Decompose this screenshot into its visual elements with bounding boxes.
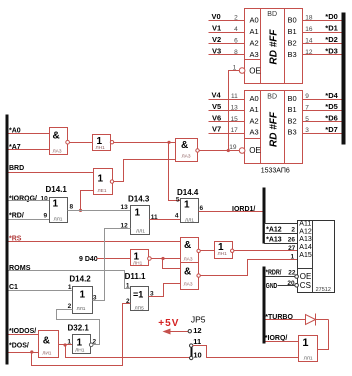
wire LA3#1 out to LN1#1	[70, 142, 93, 144]
wire D14.2 out to D14.3 pin12	[93, 229, 131, 301]
svg-text:19: 19	[229, 144, 237, 151]
wire V2	[209, 43, 245, 45]
svg-text:V7: V7	[212, 125, 221, 134]
wire B2 to *D6	[303, 121, 342, 123]
svg-text:A2: A2	[250, 116, 259, 125]
svg-text:A11: A11	[299, 220, 311, 227]
wire *DOS/ to D11.1 pin2	[32, 304, 131, 366]
svg-text:10: 10	[41, 195, 49, 202]
jumper shunt	[191, 348, 193, 357]
svg-text:1: 1	[77, 338, 83, 349]
svg-text:B2: B2	[288, 116, 297, 125]
svg-text:9: 9	[305, 93, 309, 100]
wire C1 to D14.2 pin1	[9, 290, 73, 292]
wire *IODOS/ to LI1	[9, 334, 39, 336]
svg-text:=1: =1	[133, 289, 143, 299]
svg-text:*D2: *D2	[325, 35, 338, 44]
svg-text:JP5: JP5	[191, 314, 206, 324]
svg-text:V1: V1	[212, 24, 221, 33]
svg-text:D32.1: D32.1	[68, 323, 90, 332]
pin 10	[190, 356, 193, 359]
wire B0 to *D0	[303, 20, 342, 22]
svg-text:6: 6	[200, 205, 204, 212]
power arrow	[167, 331, 189, 333]
svg-text:ЛА3: ЛА3	[182, 154, 191, 160]
wire B0 to *D4	[303, 99, 342, 101]
wire *RDR/ to OE	[266, 276, 295, 278]
svg-text:7: 7	[305, 105, 309, 112]
svg-text:5: 5	[176, 196, 180, 203]
svg-text:*DOS/: *DOS/	[9, 342, 29, 349]
svg-text:3: 3	[305, 127, 309, 134]
svg-text:26: 26	[288, 237, 296, 244]
svg-text:1: 1	[233, 64, 237, 71]
mid bus bar upper	[263, 188, 266, 244]
svg-text:*D3: *D3	[325, 47, 338, 56]
wire AND A out to LN1 buffer	[201, 250, 215, 252]
svg-text:15: 15	[231, 116, 239, 123]
wire AND B out to EPROM A15 pin1	[201, 260, 298, 276]
wire LI1 out to JP5 pin10	[66, 345, 190, 358]
svg-text:6: 6	[234, 38, 238, 45]
wire junction to AND B in1	[163, 259, 181, 269]
svg-text:A13: A13	[299, 236, 312, 243]
svg-text:*D0: *D0	[325, 12, 338, 21]
svg-text:9 D40: 9 D40	[79, 256, 98, 263]
wire JP5 pin11 to TURBO gate in2	[193, 346, 299, 358]
AND gate LA3 B	[181, 263, 201, 290]
svg-text:*D1: *D1	[325, 24, 338, 33]
junction	[161, 257, 164, 260]
svg-text:*IORQG/: *IORQG/	[9, 195, 37, 202]
svg-text:V0: V0	[212, 12, 221, 21]
svg-text:OE: OE	[249, 146, 261, 155]
wire LE1 in2 from D14.1 output net	[81, 191, 94, 211]
wire LN1#1 out to LA3#2 in1 and D14.4 pin5	[114, 142, 176, 144]
bus driver U1 RD#FF top 1533AP6	[239, 9, 302, 84]
svg-text:1: 1	[67, 339, 71, 346]
svg-text:B0: B0	[288, 15, 297, 24]
svg-text:&: &	[184, 240, 191, 251]
svg-text:B2: B2	[288, 38, 297, 47]
wire V4	[209, 99, 245, 101]
svg-text:RD #FF: RD #FF	[268, 111, 279, 147]
wire *IORQ/ to gate	[266, 341, 299, 343]
EPROM 27512	[295, 220, 335, 293]
svg-text:1: 1	[80, 289, 86, 300]
wire *A7 to DD1 AND	[9, 149, 50, 151]
svg-text:9: 9	[44, 213, 48, 220]
svg-text:*D4: *D4	[325, 91, 338, 100]
svg-text:11: 11	[231, 93, 238, 100]
OR gate LL1 turbo	[299, 336, 318, 362]
svg-text:D14.3: D14.3	[128, 195, 150, 204]
svg-text:ЛЛ1: ЛЛ1	[54, 217, 63, 223]
svg-text:A12: A12	[299, 228, 312, 235]
mid bus bar lower	[263, 267, 266, 344]
svg-text:*A12: *A12	[266, 226, 282, 233]
right data bus bar	[342, 13, 346, 145]
OR gate D14.4	[181, 199, 199, 224]
wire B2 to *D2	[303, 43, 342, 45]
svg-text:*RD/: *RD/	[9, 213, 24, 220]
junction	[227, 149, 230, 152]
svg-text:D14.4: D14.4	[177, 188, 199, 197]
wire V3	[209, 54, 245, 56]
pin 11	[190, 344, 193, 347]
wire LA3#2 out to OE pins	[200, 150, 240, 152]
svg-text:A0: A0	[250, 94, 259, 103]
AND gate LI1	[39, 331, 59, 358]
svg-text:GND: GND	[266, 283, 278, 290]
svg-text:V2: V2	[212, 35, 221, 44]
wire GND to CS	[278, 285, 295, 287]
bus driver U2 RD#FF bottom 1533AP6	[239, 91, 302, 164]
svg-text:A0: A0	[250, 15, 259, 24]
wire *RD/ to D14.1	[9, 219, 50, 221]
svg-text:16: 16	[305, 26, 313, 33]
diode VD	[306, 314, 316, 326]
svg-text:ЛЕ1: ЛЕ1	[98, 188, 107, 194]
svg-text:ЛИ1: ЛИ1	[42, 350, 52, 356]
svg-text:OE: OE	[300, 272, 312, 281]
junction	[79, 209, 82, 212]
AND gate LA3 A	[181, 238, 201, 263]
svg-text:B0: B0	[288, 94, 297, 103]
svg-text:&: &	[53, 131, 60, 142]
svg-text:14: 14	[305, 38, 313, 45]
svg-text:17: 17	[231, 127, 239, 134]
svg-text:27: 27	[288, 245, 296, 252]
wire D14.3 out to D14.4 pin4	[150, 219, 181, 221]
svg-text:ЛН1: ЛН1	[96, 145, 106, 151]
wire D32.1 out to D14.2 pin2	[57, 310, 100, 345]
wire V1	[209, 32, 245, 34]
svg-text:1: 1	[53, 198, 59, 209]
svg-text:V4: V4	[212, 91, 222, 100]
svg-text:ЛН1: ЛН1	[75, 348, 85, 354]
wire *DOS/ to LI1	[9, 352, 39, 354]
svg-text:*D5: *D5	[325, 102, 338, 111]
wire D11.1 out to AND B in2	[149, 284, 181, 297]
svg-text:27512: 27512	[316, 287, 331, 293]
svg-text:+5V: +5V	[158, 318, 179, 329]
svg-text:1: 1	[126, 282, 130, 289]
wire V5	[209, 110, 245, 112]
svg-text:D14.1: D14.1	[46, 185, 68, 194]
buffer LN1 D40	[131, 250, 152, 267]
svg-text:CS: CS	[300, 281, 311, 290]
svg-text:V5: V5	[212, 102, 221, 111]
wire V0	[209, 20, 245, 22]
svg-text:B1: B1	[288, 105, 297, 114]
junction	[64, 343, 67, 346]
svg-text:ЛА3: ЛА3	[53, 148, 62, 154]
buffer LN1 #2	[215, 242, 234, 259]
wire LN1 out to AND A in2	[152, 258, 181, 260]
svg-text:1: 1	[302, 337, 308, 349]
svg-text:*A13: *A13	[266, 236, 282, 243]
wire V7	[209, 133, 245, 135]
svg-text:8: 8	[70, 203, 74, 210]
svg-text:&: &	[184, 267, 191, 278]
svg-text:ЛЛ1: ЛЛ1	[77, 306, 86, 312]
wire *RS to AND A	[9, 241, 181, 243]
svg-text:OE: OE	[249, 66, 261, 75]
svg-text:B1: B1	[288, 27, 297, 36]
svg-text:A1: A1	[250, 105, 259, 114]
svg-text:12: 12	[305, 49, 313, 56]
junction	[167, 141, 170, 144]
wire LN1#2 out to EPROM A14 pin27	[234, 250, 298, 252]
svg-text:*D7: *D7	[325, 125, 338, 134]
wire D14.1 out to D14.3 pin13	[68, 210, 131, 212]
wire B1 to *D5	[303, 110, 342, 112]
NOR gate LE1	[94, 169, 114, 195]
svg-text:1: 1	[290, 254, 294, 261]
svg-text:1: 1	[68, 284, 72, 291]
wire LI1 out to D32.1	[59, 344, 73, 346]
svg-text:ЛА3: ЛА3	[184, 282, 193, 288]
svg-text:IORD1/: IORD1/	[232, 206, 255, 213]
AND gate LA3 #2	[176, 139, 200, 162]
OR gate D14.1	[50, 198, 68, 223]
svg-text:BRD: BRD	[9, 165, 24, 172]
wire B3 to *D7	[303, 133, 342, 135]
svg-text:ЛЛ1: ЛЛ1	[185, 217, 194, 223]
svg-text:2: 2	[68, 303, 72, 310]
svg-text:BD: BD	[267, 94, 277, 101]
svg-text:A15: A15	[299, 252, 312, 259]
wire BRD to LE1 in1	[9, 172, 94, 174]
svg-text:ЛН1: ЛН1	[218, 251, 228, 257]
svg-text:1: 1	[98, 174, 104, 185]
svg-text:BD: BD	[267, 11, 277, 18]
svg-text:RD #FF: RD #FF	[268, 29, 279, 65]
svg-text:ЛН1: ЛН1	[133, 260, 143, 266]
svg-text:13: 13	[121, 204, 129, 211]
junction	[30, 350, 33, 353]
svg-text:A1: A1	[250, 27, 259, 36]
svg-text:&: &	[43, 336, 50, 347]
wire gate out to diode cathode	[318, 320, 329, 350]
svg-text:*IODOS/: *IODOS/	[9, 328, 36, 335]
svg-text:1: 1	[135, 207, 141, 218]
svg-text:18: 18	[305, 15, 313, 22]
svg-text:4: 4	[234, 26, 238, 33]
bus tap *A13 pin26	[265, 234, 298, 244]
svg-text:ЛП5: ЛП5	[135, 305, 145, 311]
svg-text:A2: A2	[250, 38, 259, 47]
wire V6	[209, 121, 245, 123]
svg-text:A3: A3	[250, 50, 259, 59]
svg-text:B3: B3	[288, 128, 297, 137]
OR gate D14.2	[73, 287, 93, 314]
AND gate LA3 #1	[50, 128, 70, 155]
wire *A0 to DD1 AND	[9, 133, 50, 135]
svg-text:ЛЛ1: ЛЛ1	[136, 229, 145, 235]
OR gate D14.3	[131, 206, 150, 235]
svg-text:22: 22	[288, 270, 296, 277]
svg-text:13: 13	[231, 105, 239, 112]
pin 12	[188, 330, 191, 333]
wire *TURBO to diode	[266, 319, 329, 321]
inverter D32.1	[73, 335, 93, 354]
wire B3 to *D3	[303, 54, 342, 56]
wire LE1 out to LA3#2 in2	[114, 160, 176, 182]
svg-text:2: 2	[234, 15, 238, 22]
svg-text:C1: C1	[9, 284, 18, 291]
wire ROMS to D11.1 pin1	[9, 271, 131, 289]
left address bus bar	[6, 115, 9, 365]
svg-text:12: 12	[193, 326, 201, 335]
svg-text:A3: A3	[250, 128, 259, 137]
svg-text:A14: A14	[299, 244, 312, 251]
svg-text:D14.2: D14.2	[69, 274, 91, 283]
wire D40 to LN1 buffer	[97, 258, 131, 260]
buffer LN1 #1	[93, 135, 114, 152]
svg-text:B3: B3	[288, 50, 297, 59]
wire *IORQG/ to D14.1	[9, 200, 50, 202]
svg-text:V6: V6	[212, 113, 221, 122]
svg-text:4: 4	[175, 213, 179, 220]
svg-text:D11.1: D11.1	[125, 272, 146, 281]
XOR gate D11.1	[131, 287, 149, 312]
svg-text:&: &	[181, 140, 188, 151]
svg-text:8: 8	[234, 49, 238, 56]
svg-text:10: 10	[193, 351, 201, 360]
wire B1 to *D1	[303, 32, 342, 34]
svg-text:11: 11	[193, 337, 201, 346]
svg-text:2: 2	[291, 226, 295, 233]
svg-text:5: 5	[305, 116, 309, 123]
svg-text:*D6: *D6	[325, 114, 338, 123]
svg-text:ЛА3: ЛА3	[184, 256, 193, 262]
svg-text:*RDR/: *RDR/	[266, 270, 282, 277]
svg-text:1: 1	[184, 200, 190, 211]
svg-text:1533АП6: 1533АП6	[261, 167, 290, 174]
svg-text:ЛЛ1: ЛЛ1	[304, 355, 313, 361]
bus tap *A12 pin2	[265, 224, 298, 234]
wire IORD1/ to bus bar	[199, 211, 263, 213]
